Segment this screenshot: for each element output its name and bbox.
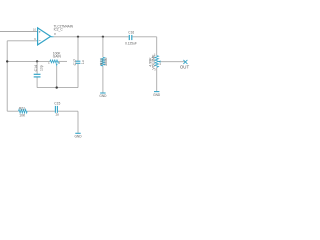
svg-text:IC2_C: IC2_C	[54, 28, 64, 32]
capacitor C15 plates	[54, 106, 56, 113]
wire R21 row left	[7, 110, 18, 112]
trimmer GAIN wiper arrow	[56, 63, 58, 65]
op-amp IC2_C triangle	[38, 28, 51, 45]
svg-text:1u: 1u	[55, 113, 59, 117]
ground GND under volume	[154, 91, 159, 93]
wire R21 to C15	[27, 110, 55, 112]
op-amp minus mark	[39, 39, 41, 41]
wire from inverting input left	[7, 40, 37, 42]
svg-text:100K: 100K	[104, 57, 108, 66]
svg-text:0.125uF: 0.125uF	[125, 42, 137, 46]
wire feedback bottom horizontal	[37, 87, 78, 89]
wire C16 to volume column	[132, 36, 156, 38]
capacitor C17 plates	[76, 60, 81, 62]
svg-text:R22: R22	[100, 59, 104, 66]
svg-text:C14: C14	[34, 65, 38, 71]
capacitor C16 plates	[128, 35, 130, 40]
wire feedback column upper	[77, 37, 79, 61]
svg-text:GND: GND	[74, 134, 82, 138]
op-amp plus mark	[39, 31, 41, 33]
capacitor C14 plates	[34, 73, 41, 75]
svg-text:1u: 1u	[81, 60, 85, 64]
wire volume column vertical top	[156, 37, 158, 56]
wire feedback column lower	[77, 64, 79, 88]
wire op-amp output	[51, 36, 54, 38]
capacitor C14 stem bottom	[36, 78, 38, 88]
trimmer VOLUME zigzag body	[155, 56, 159, 68]
node junction wiper to bottom wire	[56, 86, 58, 88]
pad OUT X symbol	[183, 60, 187, 64]
ground GND bottom left	[75, 132, 80, 134]
node junction feedback column	[77, 36, 79, 38]
svg-text:10p: 10p	[39, 65, 43, 71]
trimmer GAIN wiper stem	[56, 66, 58, 87]
wire corner down to ground	[77, 111, 79, 133]
wire volume bottom to ground	[156, 67, 158, 91]
trimmer GAIN right lead	[59, 60, 67, 62]
svg-text:GND: GND	[153, 93, 161, 97]
node junction at C14 tap	[36, 60, 38, 62]
trimmer GAIN zigzag body	[50, 60, 59, 63]
resistor R22 zigzag	[101, 57, 105, 66]
svg-text:10K: 10K	[19, 113, 26, 117]
wire R22 column top	[102, 37, 104, 58]
trimmer VOLUME wiper arrow	[158, 60, 161, 62]
node junction at left vertical	[6, 60, 8, 62]
svg-text:C16: C16	[128, 31, 134, 35]
svg-text:R21: R21	[19, 106, 25, 110]
resistor R21 zigzag	[19, 109, 28, 113]
svg-text:OUT: OUT	[180, 65, 190, 70]
node junction R22 column	[102, 36, 104, 38]
capacitor C14 stem top	[36, 61, 38, 73]
wire R22 bottom to ground	[102, 66, 104, 93]
svg-text:GND: GND	[99, 94, 107, 98]
ground GND under R22	[100, 92, 105, 94]
svg-text:C15: C15	[54, 101, 60, 105]
wire IN+ into op-amp	[0, 31, 37, 33]
wire left vertical net	[6, 41, 8, 111]
svg-text:GAIN: GAIN	[53, 55, 62, 59]
wire C15 to corner	[58, 110, 78, 112]
svg-text:C17: C17	[73, 59, 77, 65]
wire feedback horizontal to gain trimmer	[7, 60, 50, 62]
wire wiper to OUT	[160, 61, 184, 63]
